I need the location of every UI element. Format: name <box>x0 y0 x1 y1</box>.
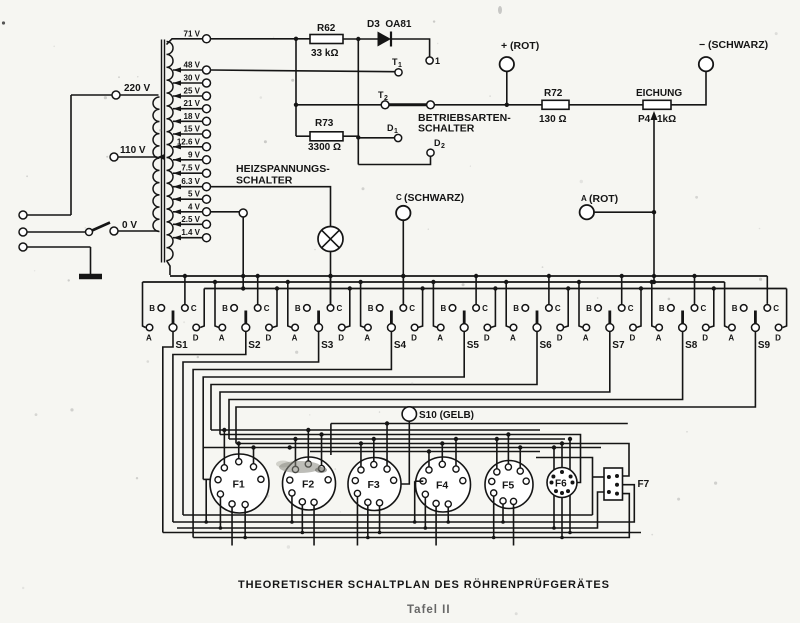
svg-text:B: B <box>149 304 155 313</box>
terminal + (ROT) <box>500 40 540 105</box>
wires F2 pins <box>290 428 324 546</box>
svg-text:S2: S2 <box>248 340 261 351</box>
wire R72 to P4 <box>569 104 643 106</box>
svg-text:− (SCHWARZ): − (SCHWARZ) <box>699 39 768 51</box>
switch S9 <box>728 304 781 351</box>
svg-text:R62: R62 <box>317 23 336 34</box>
scan smudge <box>2 6 502 473</box>
transformer tap 18 V <box>173 112 211 126</box>
bus A (anode) <box>143 280 728 328</box>
transformer TR1 primary winding <box>153 97 160 232</box>
svg-text:15 V: 15 V <box>184 125 201 134</box>
tube socket F1 <box>210 454 269 513</box>
svg-text:THEORETISCHER SCHALTPLAN DES R: THEORETISCHER SCHALTPLAN DES RÖHRENPRÜFG… <box>238 578 610 591</box>
wire 48V to T1 <box>211 70 395 72</box>
wire S4 lever routing <box>193 331 391 537</box>
svg-text:C: C <box>555 304 561 313</box>
wire junction to T2 <box>294 39 381 136</box>
wire 71V line <box>211 37 311 41</box>
svg-text:B: B <box>295 304 301 313</box>
svg-text:5 V: 5 V <box>188 190 201 199</box>
switch S5 <box>433 276 495 351</box>
svg-text:D: D <box>702 334 708 343</box>
svg-text:SCHALTER: SCHALTER <box>236 175 293 187</box>
svg-text:7.5 V: 7.5 V <box>181 164 200 173</box>
wire F1 left pin to bottom <box>204 479 208 523</box>
wire nest line A <box>211 429 540 431</box>
wires F3 pins <box>357 421 389 545</box>
wire 220V feed (left vertical) <box>71 95 75 215</box>
svg-text:D: D <box>630 334 636 343</box>
terminal 110 V <box>110 145 165 161</box>
wires F6 pins <box>552 437 572 540</box>
svg-text:D: D <box>387 123 394 133</box>
wire EICHUNG to - terminal <box>671 71 706 104</box>
svg-text:R73: R73 <box>315 118 334 129</box>
wire to D2 <box>358 157 430 165</box>
svg-text:18 V: 18 V <box>184 112 201 121</box>
wires F1 pins <box>219 428 256 546</box>
transformer tap 25 V <box>173 87 211 101</box>
svg-text:A: A <box>510 334 516 343</box>
wires F4 pins <box>424 437 459 546</box>
wire nest line D <box>236 444 629 477</box>
terminal - (SCHWARZ) <box>699 39 768 71</box>
svg-text:2: 2 <box>384 95 388 102</box>
svg-text:B: B <box>222 304 228 313</box>
svg-text:A: A <box>292 334 298 343</box>
svg-text:2.5 V: 2.5 V <box>181 215 200 224</box>
svg-text:+ (ROT): + (ROT) <box>501 40 539 52</box>
svg-text:EICHUNG: EICHUNG <box>636 88 682 99</box>
terminal 0 V <box>110 220 159 235</box>
transformer tap 1.4 V <box>173 228 211 242</box>
svg-text:D: D <box>434 138 441 148</box>
mains input terminal 3 <box>19 243 91 251</box>
svg-text:C: C <box>264 304 270 313</box>
svg-text:71 V: 71 V <box>184 29 201 38</box>
wire nest line B <box>220 435 581 483</box>
svg-text:C: C <box>628 304 634 313</box>
wire bottom line 3 <box>177 492 604 528</box>
wire bottom line 4 <box>163 532 641 534</box>
svg-text:F3: F3 <box>368 479 380 491</box>
mains selector switch <box>27 223 111 236</box>
svg-text:A: A <box>581 194 587 203</box>
wire S2 lever routing <box>173 331 246 522</box>
transformer tap 9 V <box>173 150 211 164</box>
svg-text:130 Ω: 130 Ω <box>539 114 566 125</box>
transformer tap 21 V <box>173 99 211 113</box>
wires F5 pins <box>492 432 523 545</box>
wire R62 to diode <box>343 37 378 41</box>
transformer tap 6.3 V <box>173 177 211 191</box>
wire S6 lever routing <box>211 331 537 430</box>
contact D1 <box>387 123 402 142</box>
svg-text:D: D <box>557 334 563 343</box>
transformer tap 15 V <box>173 125 211 139</box>
transformer tap 12.6 V <box>173 137 211 151</box>
svg-text:25 V: 25 V <box>184 87 201 96</box>
wire S1 lever routing <box>163 331 173 532</box>
svg-text:S5: S5 <box>467 340 480 351</box>
wire nest line F <box>536 458 604 516</box>
svg-text:C: C <box>409 304 415 313</box>
svg-text:D: D <box>411 334 417 343</box>
lamp <box>318 227 343 308</box>
svg-text:F5: F5 <box>502 480 514 492</box>
switch S6 <box>506 276 568 351</box>
transformer tap 2.5 V <box>173 215 211 229</box>
transformer TR1 secondary winding <box>167 42 174 261</box>
switch S4 <box>361 276 423 351</box>
tube socket F3 <box>348 458 401 511</box>
svg-text:A: A <box>146 334 152 343</box>
contact T2 with selector lever <box>378 90 434 109</box>
svg-text:220 V: 220 V <box>124 83 150 94</box>
svg-text:D: D <box>775 334 781 343</box>
svg-text:D3 OA81: D3 OA81 <box>367 19 412 30</box>
terminal S10 (GELB) <box>398 407 475 484</box>
svg-text:P4: P4 <box>638 114 651 125</box>
diode D3 OA81 <box>367 19 412 47</box>
tube socket F5 <box>485 461 533 509</box>
wire S9 lever routing <box>236 331 755 443</box>
wire transformer secondary bottom to bus <box>167 261 171 276</box>
tube socket F4 <box>416 457 471 512</box>
svg-text:S4: S4 <box>394 340 407 351</box>
svg-text:30 V: 30 V <box>184 74 201 83</box>
wire T2 lever to + terminal and R72 <box>434 103 542 107</box>
svg-text:C: C <box>337 304 343 313</box>
svg-text:(ROT): (ROT) <box>589 193 618 205</box>
transformer tap 5 V <box>173 190 211 204</box>
svg-text:6.3 V: 6.3 V <box>181 177 200 186</box>
svg-text:D: D <box>338 334 344 343</box>
potentiometer P4 EICHUNG 1k <box>636 88 682 282</box>
tube socket F2 <box>283 457 336 510</box>
svg-text:B: B <box>441 304 447 313</box>
wire S8 lever routing <box>229 331 683 439</box>
mains input terminal 1 <box>19 211 71 219</box>
wire bottom line 5 <box>193 494 629 538</box>
svg-text:S10 (GELB): S10 (GELB) <box>419 410 474 421</box>
svg-text:F1: F1 <box>233 479 245 491</box>
contact D2 <box>427 138 445 156</box>
svg-text:S9: S9 <box>758 340 771 351</box>
svg-text:1.4 V: 1.4 V <box>181 228 200 237</box>
resistor R73 <box>296 118 358 153</box>
wire F4 left pin to bottom <box>413 481 423 524</box>
terminal 220 V <box>75 83 159 99</box>
wire S5 lever routing <box>203 331 464 479</box>
transformer tap 48 V <box>173 61 211 75</box>
connector F7 <box>604 468 650 500</box>
svg-text:A: A <box>583 334 589 343</box>
svg-text:B: B <box>586 304 592 313</box>
svg-text:A: A <box>219 334 225 343</box>
svg-text:9 V: 9 V <box>188 150 201 159</box>
svg-text:A: A <box>656 334 662 343</box>
transformer tap 71 V <box>167 29 211 44</box>
switch S1 <box>146 276 200 351</box>
terminal C (SCHWARZ) <box>396 192 464 307</box>
svg-text:C: C <box>701 304 707 313</box>
svg-text:1kΩ: 1kΩ <box>657 114 676 125</box>
transformer tap 7.5 V <box>173 164 211 178</box>
terminal A (ROT) <box>580 193 657 219</box>
wire R73/D1 branch vertical <box>356 39 394 165</box>
wire nest line C <box>229 438 565 440</box>
wire S3 lever routing <box>183 331 319 515</box>
svg-text:HEIZSPANNUNGS-: HEIZSPANNUNGS- <box>236 163 330 175</box>
svg-text:2: 2 <box>441 143 445 150</box>
svg-text:B: B <box>513 304 519 313</box>
svg-text:S7: S7 <box>612 340 625 351</box>
svg-text:1: 1 <box>398 62 402 69</box>
svg-text:D: D <box>484 334 490 343</box>
svg-text:D: D <box>193 334 199 343</box>
svg-text:F6: F6 <box>555 479 567 490</box>
wire 6.3V to lamp <box>211 187 331 227</box>
resistor R72 <box>539 88 569 125</box>
label HEIZSPANNUNGS-SCHALTER <box>236 163 330 187</box>
svg-text:21 V: 21 V <box>184 99 201 108</box>
svg-text:C: C <box>191 304 197 313</box>
svg-text:12.6 V: 12.6 V <box>177 137 201 146</box>
svg-text:D: D <box>266 334 272 343</box>
svg-text:S3: S3 <box>321 340 334 351</box>
transformer TR1 core <box>162 40 165 263</box>
contact T1 <box>392 57 402 76</box>
switch S7 <box>579 276 641 351</box>
svg-text:C: C <box>396 193 402 202</box>
svg-text:R72: R72 <box>544 88 563 99</box>
svg-text:C: C <box>773 304 779 313</box>
wire nest line E <box>203 445 601 449</box>
wire bottom line 1 <box>183 514 593 516</box>
caption Tafel II <box>407 604 451 616</box>
bus heater (4V) <box>200 286 786 327</box>
svg-text:F4: F4 <box>436 480 448 492</box>
svg-text:33 kΩ: 33 kΩ <box>311 48 338 59</box>
resistor R62 <box>310 23 343 59</box>
switch S8 <box>652 276 714 351</box>
transformer tap 30 V <box>173 74 211 88</box>
svg-text:C: C <box>482 304 488 313</box>
svg-text:S8: S8 <box>685 340 698 351</box>
svg-text:110 V: 110 V <box>120 145 146 156</box>
svg-text:1: 1 <box>394 128 398 135</box>
tube socket F6 <box>547 468 577 498</box>
svg-text:A: A <box>364 334 370 343</box>
wire nest line G <box>331 424 628 456</box>
svg-text:B: B <box>659 304 665 313</box>
wire nest line H <box>310 451 540 453</box>
switch S3 <box>288 276 350 351</box>
svg-text:48 V: 48 V <box>184 61 201 70</box>
switch S2 <box>215 276 277 351</box>
svg-text:B: B <box>368 304 374 313</box>
contact 1 <box>426 56 440 66</box>
svg-text:SCHALTER: SCHALTER <box>418 123 475 135</box>
svg-text:(SCHWARZ): (SCHWARZ) <box>404 192 464 204</box>
svg-text:S1: S1 <box>176 340 189 351</box>
svg-text:A: A <box>437 334 443 343</box>
svg-text:A: A <box>728 334 734 343</box>
svg-text:0 V: 0 V <box>122 220 137 231</box>
mains input terminal 2 <box>19 228 27 236</box>
label BETRIEBSARTEN-SCHALTER <box>418 112 511 135</box>
svg-text:4 V: 4 V <box>188 202 201 211</box>
bus secondary/C (node K) <box>170 274 767 304</box>
transformer tap 4 V <box>173 202 211 216</box>
svg-text:F2: F2 <box>302 479 314 491</box>
svg-text:3300 Ω: 3300 Ω <box>308 142 341 153</box>
svg-text:B: B <box>732 304 738 313</box>
terminal 4V jack <box>211 209 248 289</box>
svg-text:S6: S6 <box>540 340 553 351</box>
svg-text:Tafel II: Tafel II <box>407 604 451 616</box>
ground <box>79 247 102 277</box>
wire S7 lever routing <box>220 331 610 434</box>
svg-text:1: 1 <box>435 56 440 66</box>
caption title <box>238 578 610 591</box>
wire bottom line 2 <box>173 485 634 522</box>
wire diode to contact 1 <box>391 39 430 57</box>
svg-text:F7: F7 <box>638 479 650 490</box>
